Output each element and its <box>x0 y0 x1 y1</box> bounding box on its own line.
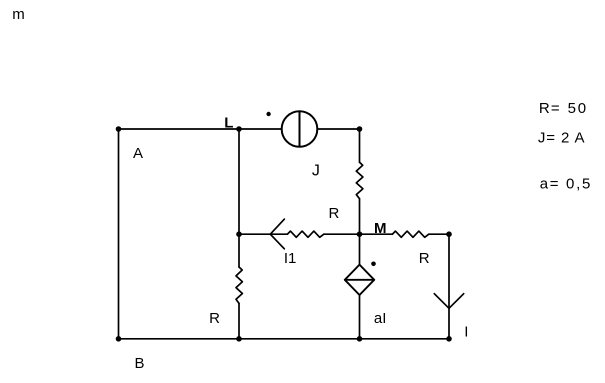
wire diamond to bottom rail <box>359 295 361 339</box>
arrow I head <box>434 294 463 309</box>
node mid-left <box>236 231 242 237</box>
svg-text:R: R <box>419 250 430 267</box>
wire right vertical branch <box>448 234 450 339</box>
wire below J-branch resistor to node M <box>359 199 361 235</box>
svg-text:A: A <box>133 145 143 162</box>
svg-text:M: M <box>374 220 387 237</box>
node bottom mid-right <box>357 336 363 342</box>
wire left vertical A-B <box>118 129 120 339</box>
svg-text:I: I <box>464 324 468 341</box>
svg-text:a= 0,5: a= 0,5 <box>540 176 592 193</box>
node M <box>357 231 363 237</box>
wire middle horizontal left segment <box>239 233 287 235</box>
wire circle right to top-right node <box>317 128 359 130</box>
svg-text:R: R <box>329 205 340 222</box>
dependent source aI diamond <box>345 265 374 295</box>
wire top-left A to L <box>119 128 282 130</box>
wire bottom B rail <box>119 338 450 340</box>
svg-text:J: J <box>312 162 320 179</box>
wire below bottom-left resistor <box>238 303 240 338</box>
svg-text:L: L <box>224 114 233 131</box>
node bottom-left B <box>116 336 122 342</box>
svg-text:m: m <box>12 6 24 23</box>
svg-text:50: 50 <box>568 100 588 117</box>
svg-text:J= 2 A: J= 2 A <box>538 129 586 146</box>
wire resistor to node M <box>324 233 360 235</box>
svg-text:I1: I1 <box>284 250 297 267</box>
node bottom mid-left <box>236 336 242 342</box>
current source J circle <box>282 111 318 147</box>
resistor R (I1 branch) <box>287 231 323 237</box>
wire node M to right resistor <box>360 233 393 235</box>
svg-text:B: B <box>135 355 145 372</box>
svg-text:R: R <box>209 310 220 327</box>
node top-right <box>357 126 363 132</box>
resistor R right <box>392 231 428 237</box>
wire top-right vertical above resistor <box>359 129 361 162</box>
resistor R (J branch) <box>356 162 363 198</box>
svg-text:aI: aI <box>374 310 387 327</box>
polarity dot near diamond <box>371 262 376 267</box>
wire node M down to diamond <box>359 234 361 264</box>
current source J bar <box>299 111 301 147</box>
polarity dot near J <box>266 112 270 116</box>
arrow I1 head <box>270 219 284 249</box>
resistor R bottom-left <box>236 267 242 303</box>
node mid-right <box>446 231 452 237</box>
dependent source middle bar <box>345 279 374 281</box>
wire right resistor to right node <box>429 233 449 235</box>
node top-left <box>116 126 122 132</box>
wire middle vertical L down to middle node <box>238 129 240 267</box>
svg-text:R=: R= <box>539 100 561 117</box>
node L <box>236 126 242 132</box>
node bottom-right <box>446 336 452 342</box>
